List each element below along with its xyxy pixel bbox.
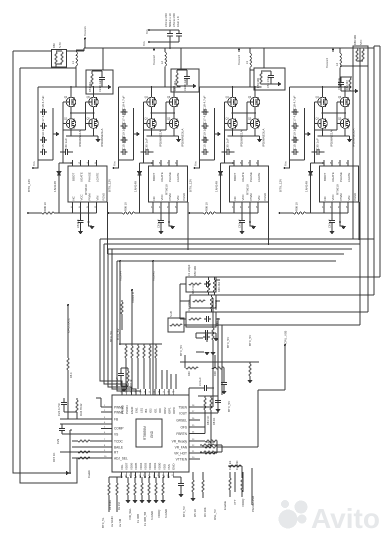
svg-text:R8 1K: R8 1K — [212, 418, 216, 425]
svg-text:VD01: VD01 — [153, 462, 157, 470]
svg-text:Fx IOB_5B: Fx IOB_5B — [143, 512, 147, 526]
svg-text:IOP0: IOP0 — [172, 407, 176, 414]
svg-text:GND: GND — [172, 464, 176, 470]
svg-text:R50 39K: R50 39K — [193, 266, 197, 276]
svg-text:VDD: VDD — [162, 464, 166, 470]
svg-text:RT: RT — [114, 451, 118, 455]
svg-text:VD02: VD02 — [148, 462, 152, 470]
svg-text:R6 4: R6 4 — [69, 372, 73, 378]
svg-text:560uF x 10: 560uF x 10 — [168, 13, 172, 27]
svg-text:VD05: VD05 — [134, 462, 138, 470]
svg-text:Vcore4: Vcore4 — [119, 271, 123, 281]
svg-text:IO2: IO2 — [149, 408, 153, 413]
svg-text:VDL: VDL — [120, 464, 124, 470]
svg-text:R51 2K2: R51 2K2 — [88, 81, 92, 92]
svg-text:BTX_5V: BTX_5V — [109, 331, 113, 342]
svg-text:R60: R60 — [52, 43, 56, 48]
svg-text:VD04: VD04 — [139, 462, 143, 470]
svg-text:BTX_5V: BTX_5V — [179, 345, 183, 356]
svg-text:N.LB: N.LB — [169, 311, 173, 317]
svg-text:R18 1K: R18 1K — [129, 379, 133, 388]
svg-text:GND: GND — [150, 430, 154, 438]
svg-text:Fx IOB: Fx IOB — [136, 514, 140, 523]
svg-text:10uF x 8: 10uF x 8 — [176, 16, 180, 27]
svg-text:R34 7K32: R34 7K32 — [79, 403, 83, 416]
svg-text:C1 220pF: C1 220pF — [187, 264, 191, 276]
svg-text:IOUT: IOUT — [179, 412, 187, 416]
svg-text:R6 10K: R6 10K — [203, 507, 207, 517]
svg-text:ADJ_SEL: ADJ_SEL — [114, 457, 128, 461]
svg-text:TCDC: TCDC — [114, 440, 124, 444]
svg-text:BTX_5L: BTX_5L — [101, 517, 105, 528]
svg-text:VTTIEN: VTTIEN — [176, 458, 188, 462]
svg-text:OFS: OFS — [180, 426, 187, 430]
svg-text:CPU_UCC: CPU_UCC — [67, 317, 71, 333]
svg-text:Av GND: Av GND — [110, 516, 114, 527]
svg-text:Vcore4: Vcore4 — [325, 58, 329, 68]
svg-text:Fx b Init: Fx b Init — [228, 460, 232, 470]
svg-text:C22 0.1uF: C22 0.1uF — [183, 78, 187, 91]
svg-text:Caddr: Caddr — [87, 470, 91, 478]
svg-text:R81 NC: R81 NC — [206, 416, 210, 425]
svg-text:C24 4.7nF: C24 4.7nF — [57, 403, 61, 416]
svg-text:RSL_5V: RSL_5V — [213, 509, 217, 520]
svg-text:BTX_5V: BTX_5V — [226, 337, 230, 348]
svg-text:Fx GND: Fx GND — [235, 461, 239, 470]
svg-text:PWM3: PWM3 — [121, 405, 125, 414]
svg-text:RT8859M: RT8859M — [143, 426, 147, 440]
svg-text:BAILE: BAILE — [114, 446, 123, 450]
svg-text:Vcore3: Vcore3 — [237, 55, 241, 65]
svg-text:Av 1M: Av 1M — [118, 518, 122, 527]
svg-text:R36: R36 — [213, 371, 217, 376]
svg-text:Avito: Avito — [311, 503, 380, 534]
svg-text:BTX_5V: BTX_5V — [116, 328, 120, 340]
svg-text:R52 NC: R52 NC — [191, 285, 195, 294]
svg-text:R69 39K: R69 39K — [353, 35, 357, 45]
svg-text:Vcore2: Vcore2 — [152, 55, 156, 65]
svg-text:VDDQ: VDDQ — [241, 498, 245, 507]
svg-text:VR_Ready: VR_Ready — [172, 440, 188, 444]
svg-text:PWM4: PWM4 — [125, 405, 129, 414]
svg-text:TSEN: TSEN — [178, 406, 187, 410]
svg-text:COMP: COMP — [114, 427, 124, 431]
svg-text:C3 1uF: C3 1uF — [198, 377, 202, 386]
svg-text:IB1: IB1 — [144, 408, 148, 413]
svg-text:R5 10: R5 10 — [193, 509, 197, 517]
svg-text:EN1: EN1 — [135, 407, 139, 413]
svg-text:BTX_5V: BTX_5V — [182, 506, 186, 517]
svg-text:R46 2K2: R46 2K2 — [217, 281, 221, 292]
svg-text:R21 1K: R21 1K — [206, 440, 215, 444]
svg-text:VID_SEL: VID_SEL — [128, 508, 132, 520]
svg-text:PG10EO/SB: PG10EO/SB — [251, 496, 255, 512]
svg-text:N.TC: N.TC — [58, 42, 62, 48]
svg-text:VR_HOT: VR_HOT — [174, 452, 187, 456]
svg-text:Vcore B: Vcore B — [131, 292, 135, 303]
svg-text:R43 2K2: R43 2K2 — [214, 299, 218, 310]
svg-text:Enable: Enable — [223, 501, 227, 510]
svg-text:BTX_5V: BTX_5V — [227, 401, 231, 412]
svg-text:Vin: Vin — [142, 41, 146, 46]
svg-text:VD03: VD03 — [144, 462, 148, 470]
svg-text:C51 to C58: C51 to C58 — [172, 13, 176, 27]
svg-text:R15 1K: R15 1K — [52, 453, 56, 462]
svg-text:GRSEL: GRSEL — [176, 419, 187, 423]
svg-text:BTX_5V: BTX_5V — [248, 335, 252, 346]
svg-text:VDDQ: VDDQ — [157, 509, 161, 518]
svg-text:6-GND: 6-GND — [150, 511, 154, 520]
svg-text:R40: R40 — [187, 371, 191, 376]
svg-text:FBRTN: FBRTN — [176, 432, 187, 436]
svg-text:Rx 1M: Rx 1M — [117, 503, 121, 511]
svg-text:CPU_V05: CPU_V05 — [284, 330, 288, 344]
svg-text:VS: VS — [114, 433, 118, 437]
svg-text:VSS: VSS — [167, 464, 171, 470]
svg-text:C29: C29 — [56, 438, 60, 444]
svg-text:LB1: LB1 — [139, 407, 143, 413]
svg-text:Vcore1: Vcore1 — [83, 26, 87, 36]
svg-text:C21 0.1uF: C21 0.1uF — [98, 79, 102, 92]
svg-text:C41 to C50: C41 to C50 — [164, 13, 168, 27]
svg-text:R52 2K2: R52 2K2 — [173, 80, 177, 91]
svg-text:IOP1: IOP1 — [168, 407, 172, 414]
svg-text:6-GND: 6-GND — [164, 509, 168, 518]
svg-text:R49: R49 — [215, 321, 219, 326]
svg-text:IOP2: IOP2 — [163, 407, 167, 414]
svg-text:C2 220pF: C2 220pF — [187, 299, 191, 311]
svg-text:C62 1.5nF: C62 1.5nF — [337, 77, 341, 90]
svg-text:C8 4.7uF: C8 4.7uF — [115, 377, 119, 388]
svg-text:IO1: IO1 — [153, 408, 157, 413]
svg-text:VTT: VTT — [233, 499, 237, 505]
svg-text:VD00: VD00 — [158, 462, 162, 470]
svg-text:VR_FAN: VR_FAN — [175, 446, 188, 450]
svg-text:IO0: IO0 — [158, 408, 162, 413]
svg-text:NTC: NTC — [359, 40, 363, 45]
svg-text:VD07: VD07 — [125, 462, 129, 470]
svg-text:EN30: EN30 — [130, 406, 134, 414]
svg-text:Vcore1: Vcore1 — [152, 271, 156, 281]
svg-text:VD06: VD06 — [129, 462, 133, 470]
svg-text:Rx 49K9: Rx 49K9 — [108, 499, 112, 510]
svg-text:FB: FB — [114, 418, 118, 422]
